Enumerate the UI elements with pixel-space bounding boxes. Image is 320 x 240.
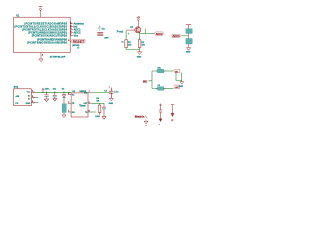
thermistor TH1	[186, 29, 192, 34]
U2 right pins	[88, 93, 91, 112]
svg-text:GND: GND	[179, 86, 184, 88]
svg-text:1: 1	[32, 91, 33, 93]
U2 left pins	[68, 95, 71, 113]
svg-text:ATTINY85-20P: ATTINY85-20P	[50, 55, 66, 58]
wire U2 out bottom	[91, 111, 96, 113]
power flag VCC above U1	[40, 8, 42, 17]
svg-text:1: 1	[70, 22, 71, 24]
svg-text:+5V: +5V	[39, 6, 43, 8]
wire bottom rail	[126, 48, 140, 50]
global label AO mic	[174, 85, 180, 89]
U1 bottom pin	[40, 53, 42, 58]
svg-text:3: 3	[70, 28, 71, 30]
pin numbers battery	[32, 91, 33, 103]
power VCC on rail	[42, 88, 45, 92]
label leader	[145, 116, 147, 119]
svg-text:7: 7	[89, 91, 90, 93]
svg-text:3: 3	[32, 101, 33, 103]
svg-text:RESET: RESET	[73, 42, 85, 44]
svg-text:1: 1	[68, 111, 69, 113]
junction tick	[128, 33, 129, 35]
antenna symbol	[98, 26, 102, 31]
battery box BT1	[14, 89, 32, 106]
svg-text:(PCINT0/MOSI/SDA/AIN0)PB0: (PCINT0/MOSI/SDA/AIN0)PB0	[27, 41, 67, 44]
svg-text:MIC: MIC	[143, 80, 148, 83]
antenna label box	[97, 32, 103, 35]
svg-text:3: 3	[89, 102, 90, 104]
global label ADC3	[172, 34, 181, 38]
buzzer LS1	[62, 104, 66, 113]
capacitor C1	[44, 92, 48, 101]
svg-text:5: 5	[68, 40, 69, 42]
diode col B	[171, 113, 174, 116]
svg-text:Vss: Vss	[74, 33, 79, 37]
capacitor C2	[53, 92, 57, 101]
svg-text:1: 1	[159, 124, 160, 126]
wire R5 out	[164, 70, 174, 72]
svg-text:6: 6	[70, 31, 71, 33]
wire mic split	[149, 71, 158, 89]
svg-text:P-rad: P-rad	[117, 30, 124, 33]
svg-text:GND: GND	[186, 51, 191, 53]
wire stub up	[144, 29, 146, 34]
power VCC right divider	[186, 25, 191, 29]
global label ADC2	[154, 32, 163, 36]
battery box text	[15, 96, 19, 105]
ground under U1	[39, 57, 43, 62]
svg-text:2: 2	[68, 102, 69, 104]
wire ADC2	[140, 33, 155, 35]
svg-text:GND: GND	[109, 103, 114, 105]
pin stubs R5	[156, 71, 165, 89]
thermistor TH2	[186, 39, 192, 45]
resistor R3	[138, 40, 141, 48]
svg-text:PG: PG	[15, 103, 18, 105]
svg-text:ADC3: ADC3	[173, 35, 181, 38]
svg-text:GND: GND	[137, 57, 142, 59]
svg-text:4.7u: 4.7u	[114, 91, 119, 94]
cap col A	[159, 110, 162, 119]
ground mic	[180, 80, 184, 84]
svg-text:ANT: ANT	[104, 36, 109, 39]
svg-text:2: 2	[70, 25, 71, 27]
diode D1	[62, 92, 65, 104]
U1 pin name rows (inside)	[14, 23, 67, 45]
global label VCC mic	[174, 69, 180, 73]
svg-text:1M: 1M	[96, 101, 99, 103]
wire mic right vertical	[180, 73, 182, 81]
svg-text:+5B: +5B	[15, 96, 19, 98]
cap C4	[102, 103, 106, 119]
resistor R2	[125, 40, 128, 48]
svg-text:GND: GND	[26, 103, 31, 105]
ground matrix	[144, 120, 148, 124]
wire to mic gnd	[176, 73, 182, 81]
U1 pin numbers	[68, 22, 71, 42]
wire C6 out	[164, 88, 174, 90]
U1 right pin net labels	[74, 22, 85, 38]
junction dots rail	[42, 92, 64, 93]
U2 pin names	[72, 94, 75, 114]
IC U2 body	[71, 93, 88, 117]
wire emitter to node	[139, 32, 141, 39]
power flag col A	[159, 104, 162, 110]
power bar col B	[171, 105, 174, 114]
svg-text:6: 6	[89, 111, 90, 113]
wire stubs pins 2 3	[36, 98, 39, 103]
svg-text:100n: 100n	[95, 116, 100, 118]
svg-text:(PCINT2/SCK/ADC1/T0)PB2: (PCINT2/SCK/ADC1/T0)PB2	[32, 34, 68, 37]
svg-text:2: 2	[32, 96, 33, 98]
svg-text:85: 85	[77, 47, 79, 49]
U2 pin numbers	[68, 91, 89, 112]
wire U2 out top	[91, 92, 111, 94]
wire divider node	[181, 35, 188, 37]
ground right divider	[186, 48, 190, 51]
wire base Q1	[127, 29, 135, 31]
wire main supply rail	[36, 91, 72, 93]
svg-text:7: 7	[70, 34, 71, 36]
U1 right pin stubs	[70, 24, 73, 42]
wire base drop	[125, 30, 127, 40]
svg-text:100n: 100n	[45, 88, 50, 90]
power +5V Q1	[137, 19, 139, 27]
ground C5	[109, 98, 113, 101]
global label PB0 on pin 5	[71, 40, 85, 44]
svg-text:8: 8	[68, 93, 69, 95]
battery pins	[31, 91, 35, 103]
ground Q1 divider	[138, 50, 142, 55]
wire U2 out mid	[91, 102, 104, 104]
svg-text:ADC2: ADC2	[156, 33, 163, 36]
transistor Q1	[135, 27, 141, 33]
IC U1 body	[14, 17, 71, 52]
svg-text:Matrix: Matrix	[135, 114, 145, 118]
